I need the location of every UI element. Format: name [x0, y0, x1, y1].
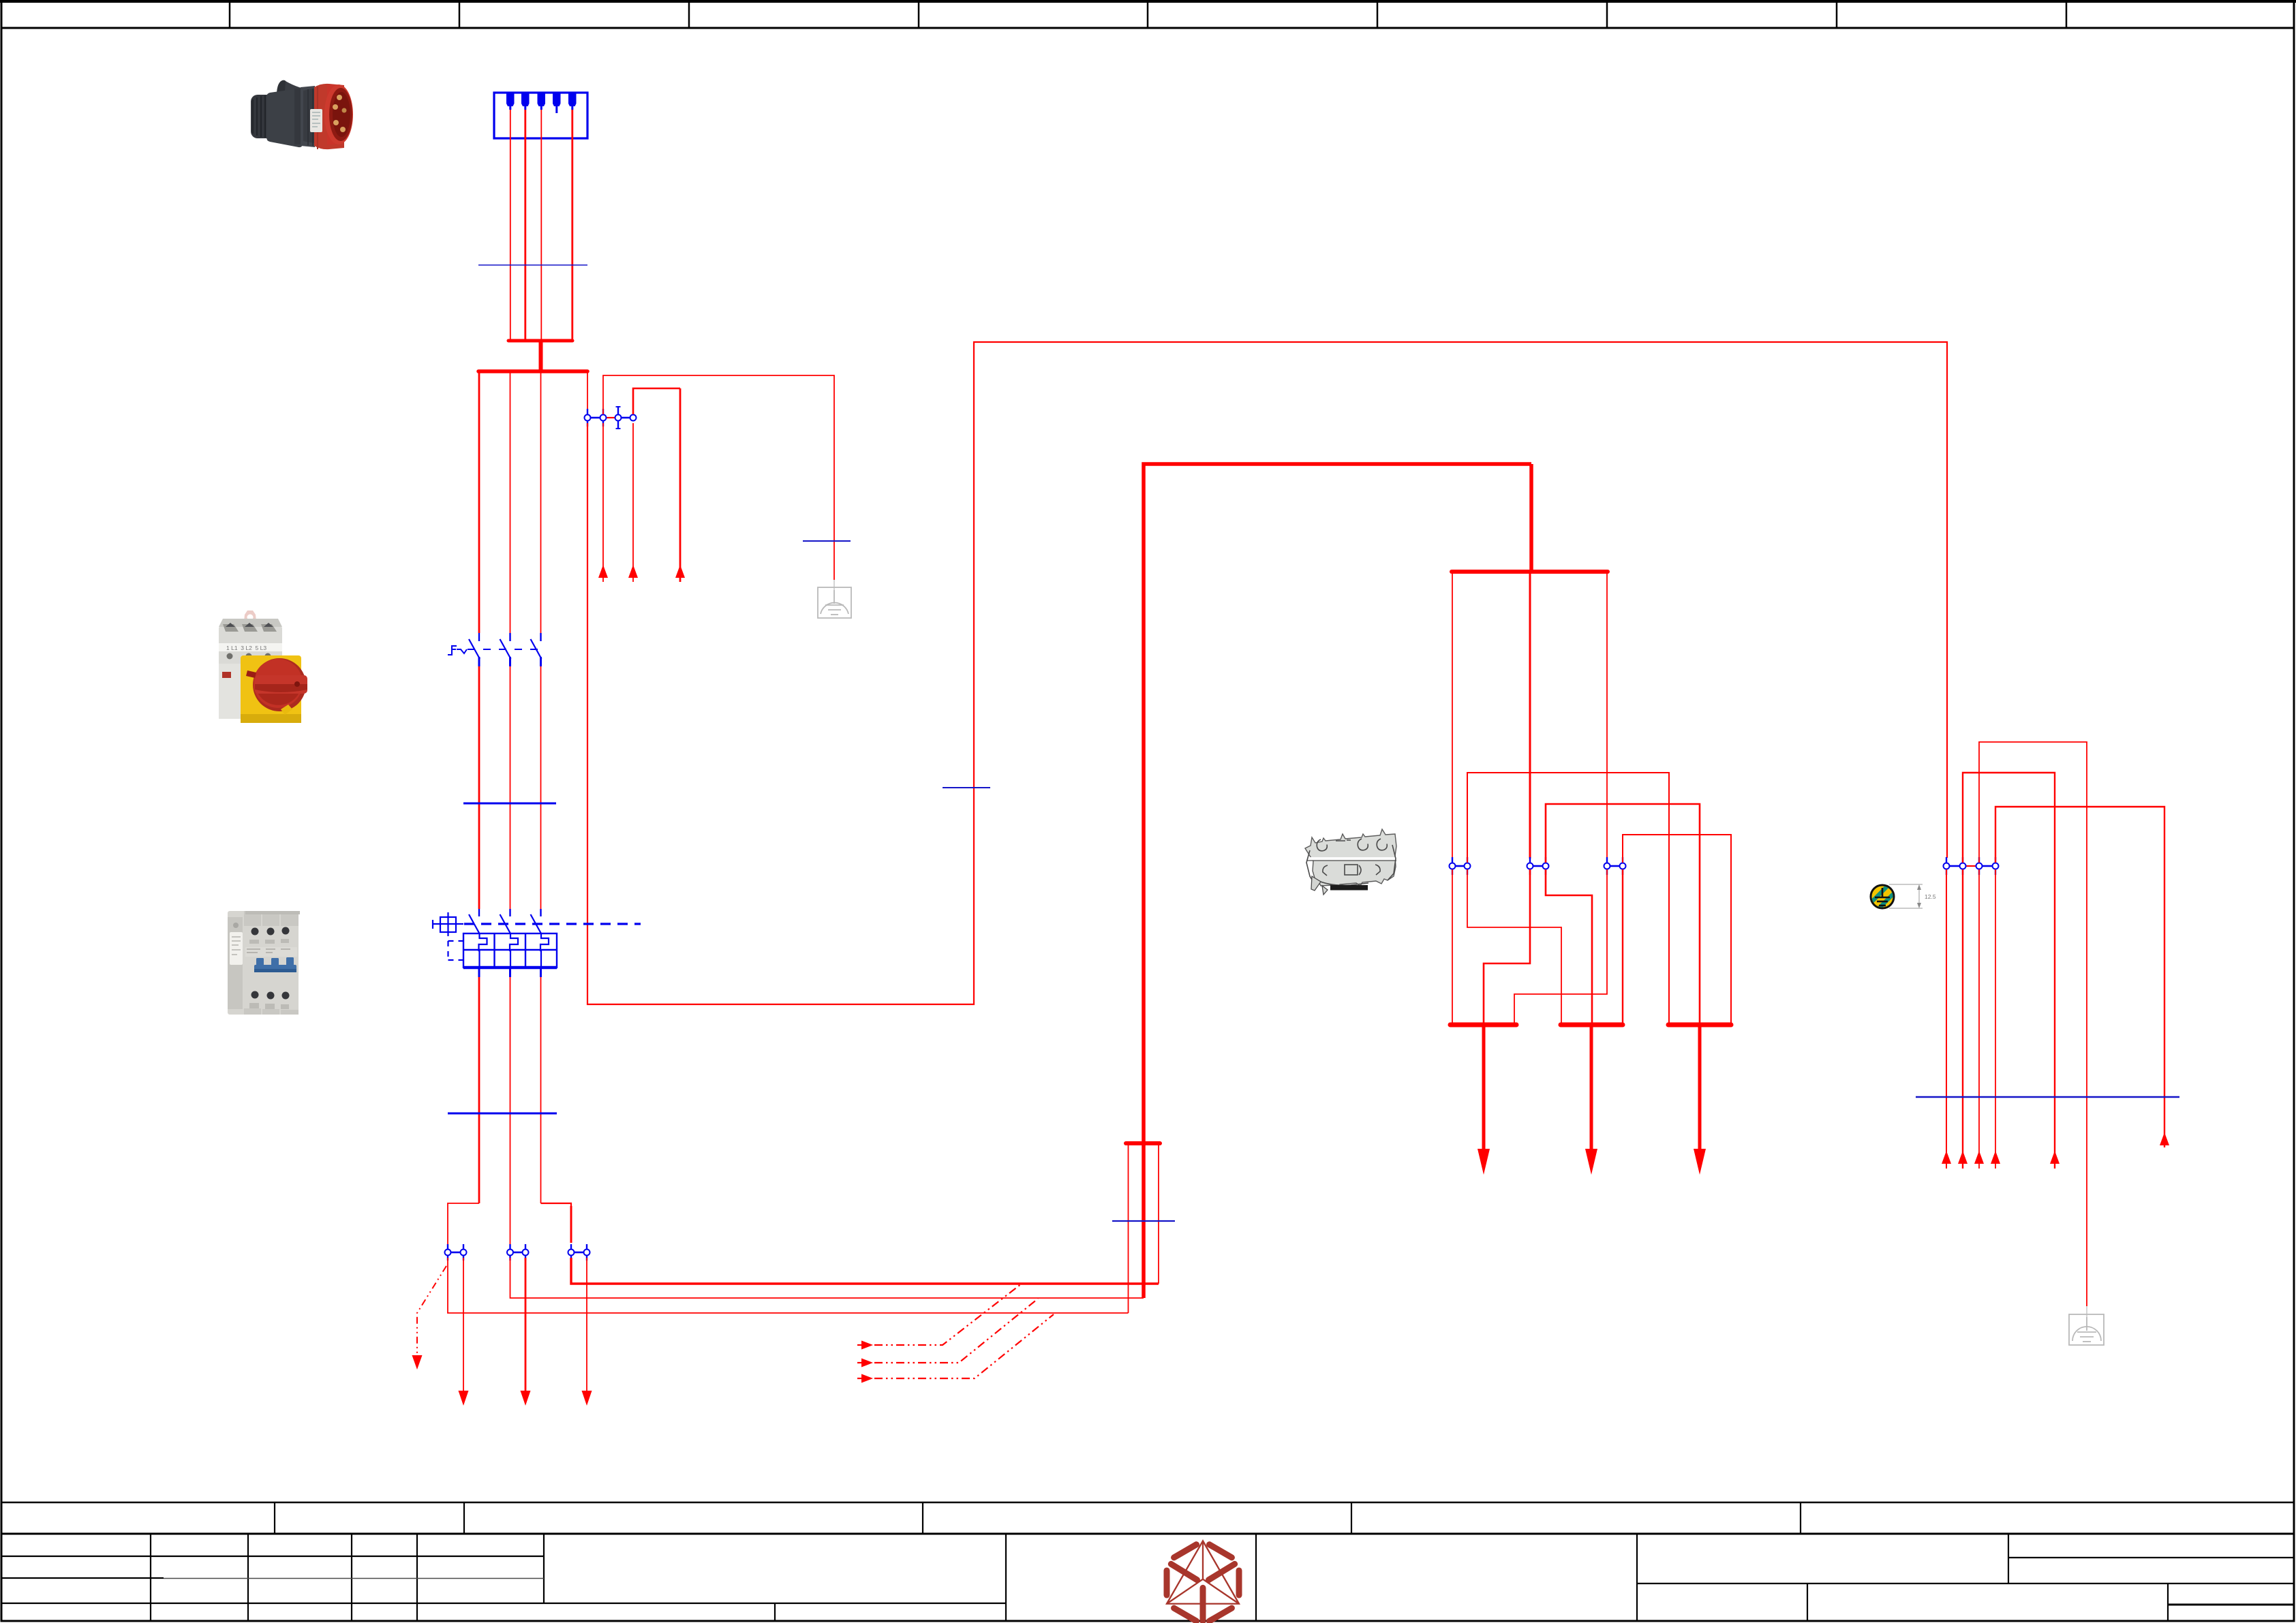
connector X1 (CEE plug symbol)	[494, 93, 587, 138]
cable bar	[1126, 1141, 1160, 1145]
bus bar A	[508, 339, 572, 343]
crossing route f	[1622, 869, 1623, 1023]
wire L1 drop	[478, 373, 480, 633]
overload box	[463, 933, 557, 968]
terminal pair group at y1271	[1450, 857, 1626, 875]
ferrule cable block	[1126, 464, 1531, 1313]
drop to pair2 thick	[1529, 573, 1531, 859]
drop to pair3	[1606, 573, 1608, 859]
remote route b	[1963, 773, 2055, 1169]
pole 3	[540, 633, 541, 641]
L3 jog thick segment	[570, 1206, 572, 1243]
output bar 1	[1450, 1023, 1516, 1027]
load arrow 1	[459, 1258, 469, 1406]
wire L1 mid1	[478, 666, 480, 909]
load arrow 3	[582, 1258, 592, 1406]
wire L3 mid2	[540, 977, 542, 1203]
rotary disconnect switch photo	[219, 610, 307, 723]
terminal contacts X2 at y1838	[445, 1244, 590, 1261]
crossing route c	[1623, 835, 1731, 1023]
wire L2 mid2	[510, 977, 511, 1248]
crossing route e	[1546, 869, 1592, 1023]
wire contact c4 riser	[633, 388, 680, 414]
right remote terminal group at y1271	[1944, 857, 1999, 875]
remote route c	[1995, 807, 2164, 1147]
feeder B: c2a down right	[510, 1258, 1144, 1298]
wire L3 mid1	[540, 666, 542, 909]
cable marker W4	[1112, 1220, 1175, 1222]
left conductor	[1128, 1143, 1129, 1313]
terminal block photo	[1305, 829, 1396, 895]
L1 jog left	[448, 1203, 479, 1248]
trip zigzag	[457, 649, 467, 653]
feeder A to remote: c1a down right	[448, 1258, 1129, 1313]
cable tick on PE box wire	[803, 540, 851, 542]
output bar 3	[1668, 1023, 1731, 1027]
motor breaker Q2 (3-pole with overload)	[432, 909, 641, 977]
distribution bus bar	[1452, 570, 1608, 574]
spare wire up-arrow 2	[628, 423, 638, 582]
cable marker W2	[463, 803, 556, 805]
output arrow 3	[1694, 1027, 1706, 1175]
wire L2 plug lead	[524, 110, 526, 339]
bottom stubs	[479, 968, 541, 977]
trip dashed line	[464, 923, 641, 925]
remote drop arrows (pointing up at wire ends)	[1942, 869, 2169, 1169]
dimension annotation 12.5	[1889, 884, 1923, 908]
dash-dot cable arrow left	[412, 1266, 447, 1370]
top column strip line	[1, 27, 2294, 29]
pair2 left staircase	[1484, 869, 1530, 1023]
overload hooks	[479, 934, 549, 968]
wire L3 plug lead	[540, 110, 542, 339]
right conductor	[1158, 1143, 1159, 1284]
disconnect switch Q1 (3-pole)	[448, 633, 542, 666]
crossing route b	[1546, 804, 1700, 1023]
wire L2 drop	[510, 373, 511, 633]
remote route a to PE	[1979, 742, 2087, 1306]
PE box symbol upper	[818, 580, 851, 618]
dashed mech bracket	[448, 941, 463, 960]
pair3 left staircase	[1514, 869, 1607, 1023]
wire L2 mid1	[510, 666, 511, 909]
feeder drop to bar	[1529, 464, 1533, 572]
PE box symbol lower right	[2069, 1306, 2104, 1345]
bus A to bus B stub	[539, 341, 543, 370]
wire from contact to PE box route	[603, 375, 834, 580]
cable marker W5 long blue	[1916, 1096, 2179, 1098]
output arrow 2	[1585, 1027, 1597, 1175]
cable tick on long route	[943, 787, 990, 788]
L3 jog right	[541, 1203, 572, 1243]
CEE plug photo	[251, 80, 353, 150]
dash-dot cable bundle arrows	[857, 1284, 1054, 1383]
wire N drop to contact	[587, 373, 588, 412]
pole 1	[478, 633, 480, 641]
long route wire N to remote	[587, 342, 1947, 1004]
thick feeder riser	[1144, 464, 1531, 1298]
svg-text:12.5: 12.5	[1925, 893, 1936, 900]
linkage dashes	[468, 649, 538, 650]
svg-text:1 L1 3 L2 5 L3: 1 L1 3 L2 5 L3	[226, 645, 266, 651]
PE green/yellow marker circle	[1866, 875, 1901, 921]
output arrow 1	[1478, 1027, 1490, 1175]
contact group K1 at y613	[585, 406, 637, 429]
load arrow 2	[521, 1258, 531, 1406]
pole stubs + blades	[469, 909, 542, 934]
cable marker W3	[448, 1113, 557, 1115]
spare wire up-arrow 1	[598, 423, 608, 582]
company logo hexagon	[1167, 1541, 1239, 1622]
drop to pair1	[1452, 573, 1453, 859]
pole 2	[509, 633, 510, 641]
MCB breaker photo	[228, 911, 300, 1015]
wire PE plug lead	[571, 110, 573, 341]
pair1 left drop	[1452, 869, 1453, 1023]
feeder C thick: c3a down right	[571, 1258, 1159, 1284]
wire L3 drop	[540, 373, 542, 633]
TITLE_BLOCK	[1, 1502, 2294, 1622]
output bar 2	[1561, 1023, 1623, 1027]
cable marker W1	[478, 264, 587, 266]
wire L1 mid2	[478, 977, 480, 1203]
handle F symbol	[448, 646, 457, 655]
column ticks	[230, 1, 2066, 28]
crossing route d	[1467, 869, 1561, 1023]
linkage cross box	[432, 912, 463, 936]
spare wire up-arrow 3	[675, 388, 685, 582]
bus bar B	[478, 369, 587, 373]
wire L1 plug lead	[510, 110, 511, 339]
crossing route a	[1467, 773, 1669, 1023]
